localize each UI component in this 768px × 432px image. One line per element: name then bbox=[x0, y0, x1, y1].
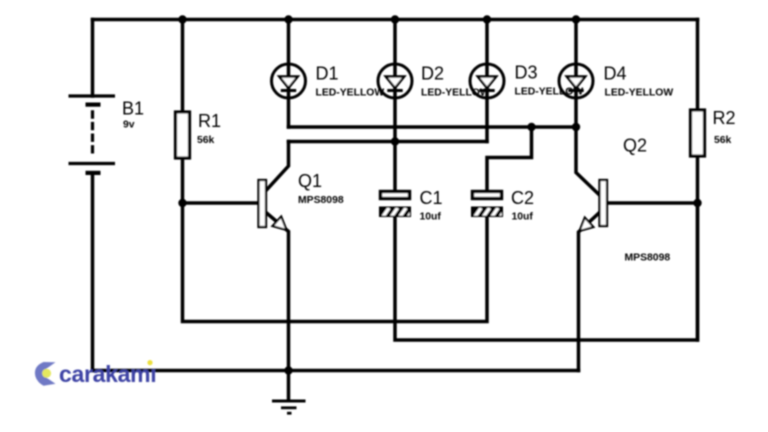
svg-text:56k: 56k bbox=[197, 135, 215, 146]
svg-text:9v: 9v bbox=[123, 120, 135, 131]
svg-text:D4: D4 bbox=[604, 64, 627, 84]
svg-text:D1: D1 bbox=[316, 64, 339, 84]
svg-text:10uf: 10uf bbox=[512, 212, 534, 223]
svg-text:D3: D3 bbox=[515, 63, 538, 83]
svg-text:C2: C2 bbox=[511, 188, 534, 208]
svg-text:LED-YELLOW: LED-YELLOW bbox=[421, 88, 490, 99]
svg-text:MPS8098: MPS8098 bbox=[298, 195, 344, 206]
svg-text:LED-YELLOW: LED-YELLOW bbox=[316, 88, 385, 99]
svg-text:MPS8098: MPS8098 bbox=[625, 253, 671, 264]
svg-text:Q2: Q2 bbox=[623, 136, 647, 156]
svg-text:R1: R1 bbox=[198, 111, 221, 131]
svg-text:LED-YELLOW: LED-YELLOW bbox=[515, 87, 584, 98]
svg-text:56k: 56k bbox=[714, 135, 732, 146]
svg-text:LED-YELLOW: LED-YELLOW bbox=[605, 88, 674, 99]
svg-text:Q1: Q1 bbox=[298, 171, 322, 191]
svg-text:C1: C1 bbox=[420, 188, 443, 208]
svg-text:B1: B1 bbox=[122, 99, 144, 119]
svg-text:D2: D2 bbox=[421, 64, 444, 84]
svg-text:R2: R2 bbox=[713, 108, 736, 128]
svg-text:10uf: 10uf bbox=[420, 212, 442, 223]
svg-text:carakamı: carakamı bbox=[59, 361, 156, 387]
